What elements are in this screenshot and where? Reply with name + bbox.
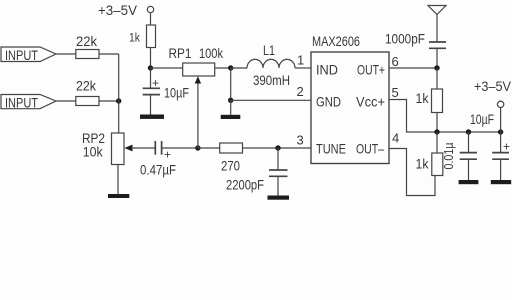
op-amp / IC U1 MAX2606 [311, 52, 389, 164]
ground (under node C) [221, 115, 241, 119]
inductor L1 390mH [247, 59, 295, 68]
wire: node A down to capacitor 10uF [150, 68, 152, 88]
wire: node H to 10uF right [500, 132, 502, 153]
junction (tune node / RP1 wiper) [195, 145, 200, 150]
capacitor 0.01u [460, 153, 477, 160]
connector INPUT (lower) [1, 95, 56, 111]
wire: 22k lower to mixing bus [99, 100, 119, 102]
wire: RP2 bottom to ground [117, 165, 119, 195]
potentiometer RP1 100k [183, 63, 215, 76]
svg-text:+3–5V: +3–5V [98, 2, 138, 18]
svg-text:1k: 1k [129, 33, 140, 45]
capacitor 2200pF [269, 170, 288, 176]
wire: Vcc rail [437, 131, 501, 133]
wire: node G to 0.01u [468, 132, 470, 153]
wire: RP2 wiper to 0.47uF [132, 147, 156, 149]
antenna [428, 6, 446, 43]
wire: IC pin 4 loop to 1k lower right [389, 149, 435, 196]
wire: IC pin 6 to node E [389, 67, 437, 69]
svg-text:INPUT: INPUT [5, 95, 38, 110]
wire: node A to RP1 [151, 67, 183, 69]
wire: IC pin 5 to Vcc rail [389, 100, 437, 133]
svg-text:+: + [503, 140, 510, 154]
junction node B [228, 65, 233, 70]
wire: 10uF right to ground [500, 159, 502, 180]
junction node H (Vcc rail at 10uF) [498, 129, 503, 134]
junction node F (Vcc rail at 1k) [434, 129, 439, 134]
junction node E (OUT+) [434, 65, 439, 70]
resistor 1k (upper right) [432, 89, 443, 113]
svg-text:100k: 100k [199, 45, 224, 61]
junction node D (2200pF tap) [275, 145, 280, 150]
potentiometer RP2 10k [112, 133, 133, 165]
svg-text:INPUT: INPUT [5, 48, 38, 63]
connector INPUT (upper) [1, 47, 56, 63]
svg-text:3: 3 [297, 133, 304, 148]
wire: node C to ground [230, 100, 232, 115]
svg-text:1000pF: 1000pF [385, 31, 425, 47]
svg-text:+3–5V: +3–5V [474, 78, 512, 94]
svg-text:22k: 22k [76, 78, 97, 94]
svg-text:MAX2606: MAX2606 [312, 33, 360, 49]
node +3-5V supply terminal (right) [474, 78, 512, 108]
wire: mixing bus vertical [118, 54, 120, 133]
wire: 2200pF to ground [277, 176, 279, 195]
resistor 22k (upper) [76, 50, 99, 59]
wire: tune node to 270 resistor [198, 147, 220, 149]
capacitor 10uF (right) [492, 153, 509, 160]
junction node G (Vcc rail at 0.01u) [466, 129, 471, 134]
junction (mixing bus) [116, 98, 121, 103]
wire: 10uF to ground [150, 95, 152, 115]
svg-text:L1: L1 [263, 42, 275, 58]
svg-text:2200pF: 2200pF [226, 177, 264, 193]
ground (under 10uF right) [491, 180, 511, 184]
ground (under 2200pF) [268, 196, 290, 200]
svg-text:5: 5 [392, 85, 399, 100]
wire: 1k resistor to node A [150, 48, 152, 69]
capacitor 0.47uF (coupling) [155, 141, 161, 155]
resistor 1k (supply dropper) [147, 25, 156, 48]
ground (under 10uF) [140, 115, 164, 119]
node +3-5V supply terminal (top left) [98, 2, 154, 18]
junction node A (supply rail) [148, 65, 153, 70]
svg-text:10k: 10k [83, 144, 104, 160]
capacitor 10uF (supply decoupling) [143, 88, 160, 94]
wire: node B down to node C [230, 68, 232, 100]
svg-text:0.01µ: 0.01µ [441, 142, 456, 169]
svg-text:270: 270 [221, 158, 240, 174]
wire: 1k upper right to Vcc rail [436, 113, 438, 133]
wire: supply terminal to 1k resistor [150, 13, 152, 25]
ground (under 0.01u) [459, 180, 479, 184]
resistor 1k (lower right) [432, 153, 443, 176]
svg-text:390mH: 390mH [253, 72, 290, 88]
svg-text:IND: IND [316, 62, 338, 78]
svg-text:1: 1 [297, 53, 304, 68]
svg-text:10µF: 10µF [164, 85, 189, 101]
svg-text:+: + [152, 76, 159, 90]
svg-text:22k: 22k [76, 33, 98, 49]
svg-text:10µF: 10µF [470, 111, 494, 127]
wire: 270 to IC pin 3 [243, 147, 312, 149]
wire: RP1 wiper stem [197, 81, 199, 148]
ground (under RP2) [108, 194, 129, 198]
wire: L1 to IC pin 1 [295, 67, 311, 69]
wire: node E to 1k (upper right) [436, 68, 438, 89]
wire: 22k upper to mixing bus [99, 53, 119, 55]
svg-text:1k: 1k [416, 156, 430, 172]
wire: INPUT lower to 22k [56, 100, 76, 102]
resistor 270 [220, 143, 243, 153]
svg-text:TUNE: TUNE [316, 141, 346, 157]
svg-text:RP1: RP1 [169, 45, 192, 61]
wiper arrow of RP1 [195, 76, 201, 83]
wire: node D to 2200pF [277, 148, 279, 170]
wire: right supply terminal to Vcc rail [500, 108, 502, 133]
resistor 22k (lower) [76, 97, 99, 106]
svg-text:6: 6 [392, 54, 399, 69]
svg-text:Vcc+: Vcc+ [356, 94, 385, 110]
wire: node B to L1 [231, 67, 247, 69]
wire: 0.01u to ground [468, 159, 470, 180]
wire: RP1 to node B [215, 67, 231, 69]
wire: node F to 1k (lower right) [436, 132, 438, 153]
svg-text:2: 2 [297, 84, 304, 99]
capacitor 1000pF [429, 42, 446, 48]
svg-text:0.47µF: 0.47µF [140, 162, 176, 178]
wire: INPUT upper to 22k [56, 53, 76, 55]
svg-text:4: 4 [392, 131, 399, 146]
svg-text:1k: 1k [416, 90, 430, 106]
svg-text:OUT–: OUT– [356, 141, 384, 157]
junction node C (GND pin rail) [228, 98, 233, 103]
svg-text:GND: GND [316, 94, 341, 110]
svg-text:OUT+: OUT+ [357, 62, 385, 78]
wire: node C to IC pin 2 [231, 99, 311, 101]
wire: 1000pF to node E [436, 48, 438, 68]
svg-text:+: + [164, 148, 171, 162]
wire: 0.47uF to tune node [162, 147, 198, 149]
